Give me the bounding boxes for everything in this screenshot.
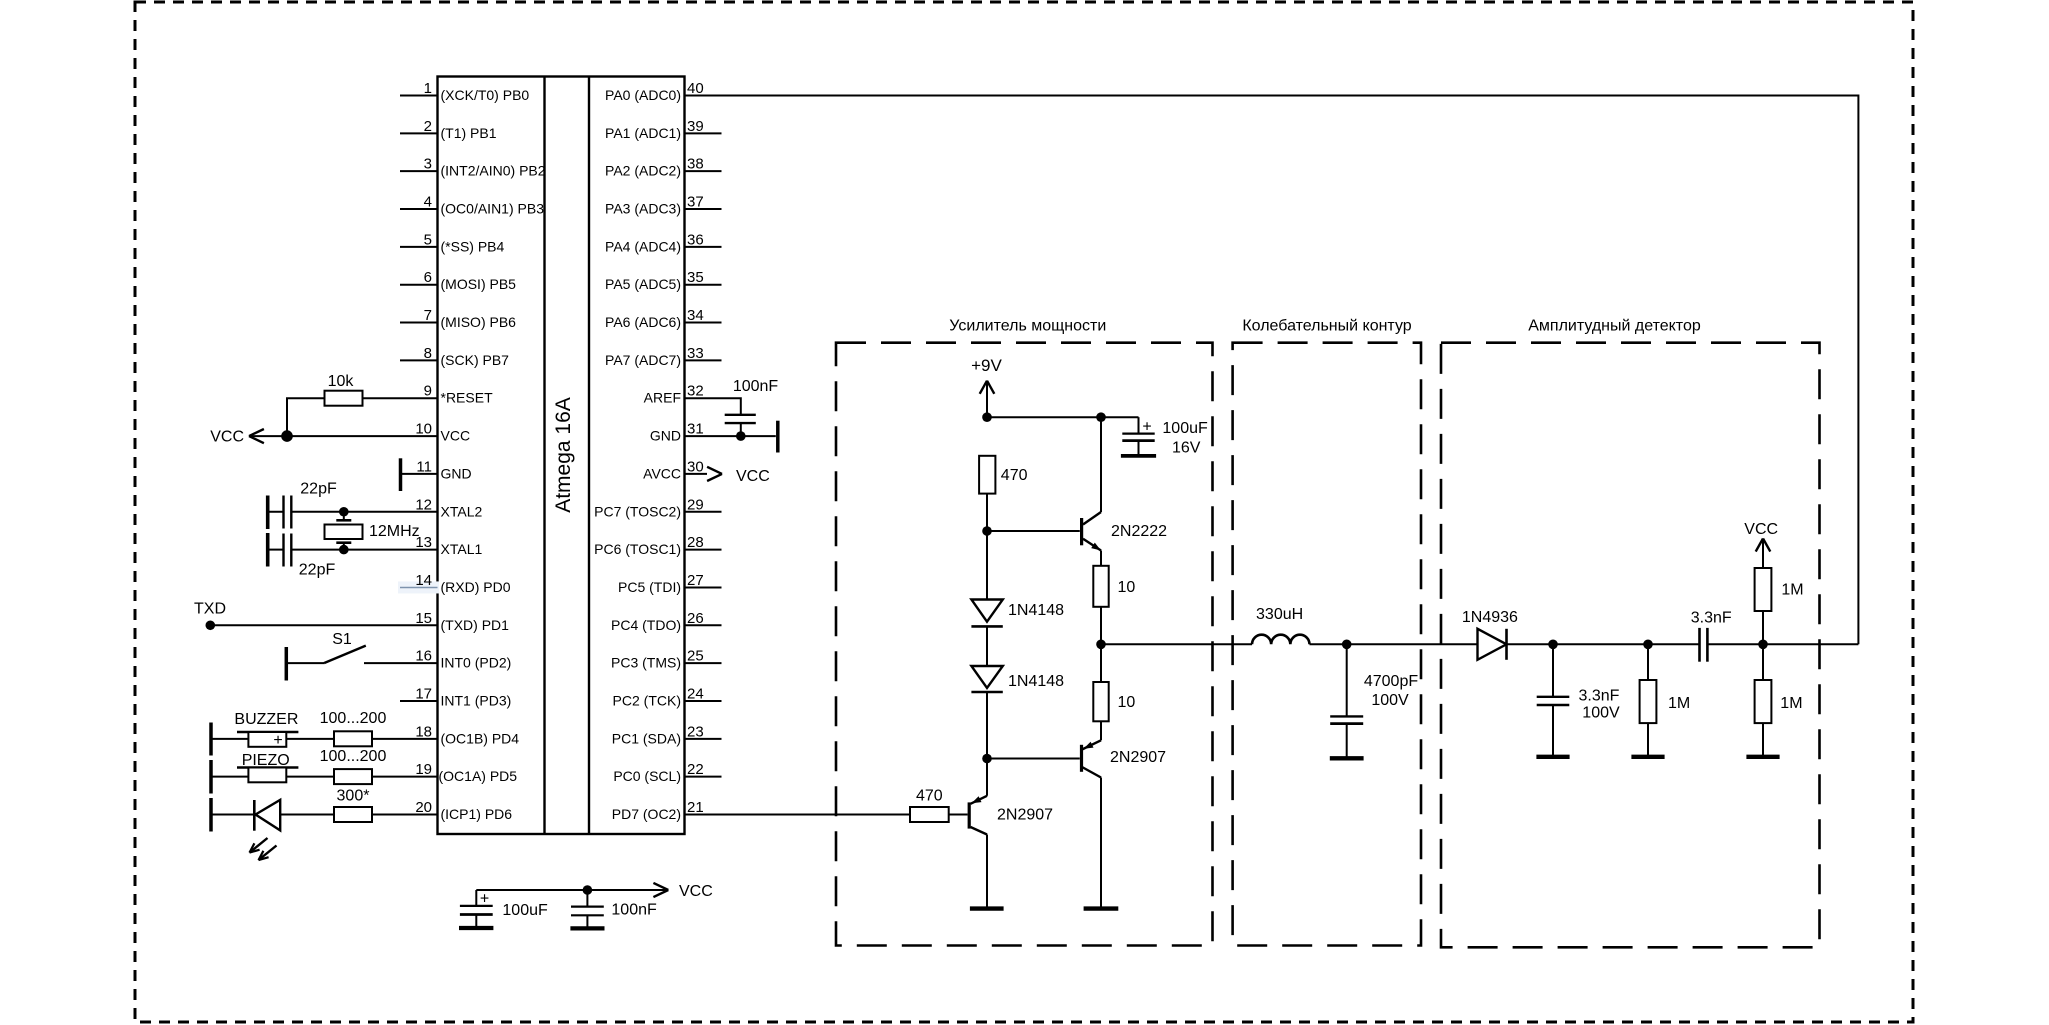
pin 12 XTAL2 xyxy=(415,496,482,519)
svg-text:22pF: 22pF xyxy=(299,562,336,579)
svg-text:14: 14 xyxy=(415,572,432,589)
svg-text:12: 12 xyxy=(415,496,432,513)
pin 39 PA1 (ADC1) xyxy=(605,118,721,141)
svg-text:16: 16 xyxy=(415,648,432,665)
svg-text:PC6 (TOSC1): PC6 (TOSC1) xyxy=(594,541,681,557)
pin 37 PA3 (ADC3) xyxy=(605,194,721,217)
svg-text:VCC: VCC xyxy=(679,883,713,900)
power symbol VCC (detector) xyxy=(1744,521,1778,557)
svg-text:10: 10 xyxy=(1118,694,1136,711)
wire LED to R4 xyxy=(280,813,334,815)
svg-text:100nF: 100nF xyxy=(733,378,779,395)
ground bar buzzer xyxy=(209,723,213,756)
svg-text:VCC: VCC xyxy=(210,429,244,446)
svg-text:(OC0/AIN1) PB3: (OC0/AIN1) PB3 xyxy=(441,201,545,217)
pin 25 PC3 (TMS) xyxy=(611,648,722,671)
wire PA0 pin40 to detector output xyxy=(685,96,1859,645)
pin 22 PC0 (SCL) xyxy=(613,761,721,784)
svg-text:26: 26 xyxy=(687,610,704,627)
svg-text:100V: 100V xyxy=(1371,692,1409,709)
ground bar C7 xyxy=(570,926,604,930)
wire +9V rail top xyxy=(987,416,1139,418)
svg-text:(ICP1) PD6: (ICP1) PD6 xyxy=(441,806,513,822)
pin 11 GND xyxy=(416,458,471,481)
resistor R11 1M (pull-down) xyxy=(1755,644,1803,757)
svg-text:(XCK/T0) PB0: (XCK/T0) PB0 xyxy=(441,87,530,103)
svg-text:+: + xyxy=(480,891,489,908)
wire piezo to R3 xyxy=(286,776,334,778)
svg-text:BUZZER: BUZZER xyxy=(234,711,298,728)
pin 4 (OC0/AIN1) PB3 xyxy=(400,194,544,217)
pin 10 VCC xyxy=(415,421,470,444)
svg-text:XTAL1: XTAL1 xyxy=(441,541,483,557)
svg-text:9: 9 xyxy=(424,383,432,400)
svg-text:20: 20 xyxy=(415,799,432,816)
svg-text:33: 33 xyxy=(687,345,704,362)
crystal Y1 12MHz xyxy=(325,512,420,550)
svg-text:100V: 100V xyxy=(1582,704,1620,721)
svg-text:1M: 1M xyxy=(1668,695,1690,712)
svg-text:S1: S1 xyxy=(332,631,352,648)
svg-text:3.3nF: 3.3nF xyxy=(1579,687,1620,704)
capacitor C6 100uF (electrolytic) xyxy=(460,890,548,928)
svg-text:470: 470 xyxy=(1001,467,1028,484)
section box: power amplifier xyxy=(836,343,1213,946)
junction node Q1 base xyxy=(982,526,992,536)
svg-text:3: 3 xyxy=(424,156,432,173)
pin 17 INT1 (PD3) xyxy=(400,685,511,708)
junction node B xyxy=(1643,640,1653,650)
wire pin9 to resistor R1 xyxy=(363,397,438,399)
ground bar S1 xyxy=(285,647,289,681)
ground bar piezo xyxy=(209,760,213,794)
wire R7 to output node xyxy=(1100,607,1102,645)
resistor R1 10k xyxy=(325,373,363,406)
junction node A xyxy=(1548,640,1558,650)
svg-text:PA7 (ADC7): PA7 (ADC7) xyxy=(605,352,681,368)
svg-text:PD7 (OC2): PD7 (OC2) xyxy=(612,806,681,822)
pin 6 (MOSI) PB5 xyxy=(400,269,516,292)
svg-text:3.3nF: 3.3nF xyxy=(1691,610,1732,627)
svg-text:2N2907: 2N2907 xyxy=(997,807,1053,824)
svg-text:Усилитель мощности: Усилитель мощности xyxy=(949,318,1106,335)
ground bar C6 xyxy=(459,926,493,930)
wire pin31 GND xyxy=(685,435,776,437)
svg-text:8: 8 xyxy=(424,345,432,362)
svg-text:Atmega 16A: Atmega 16A xyxy=(552,397,575,513)
wire L1 to LC node xyxy=(1310,643,1347,645)
power symbol +9V xyxy=(971,356,1002,417)
section title: Колебательный контур xyxy=(1242,318,1411,335)
svg-text:PA1 (ADC1): PA1 (ADC1) xyxy=(605,125,681,141)
svg-text:18: 18 xyxy=(415,723,432,740)
pin 26 PC4 (TDO) xyxy=(611,610,722,633)
wire to Q1 base xyxy=(987,530,1080,532)
svg-text:(OC1B) PD4: (OC1B) PD4 xyxy=(441,730,520,746)
pin 5 (*SS) PB4 xyxy=(400,231,505,254)
svg-text:15: 15 xyxy=(415,610,432,627)
ground bar Q3 xyxy=(970,906,1004,910)
svg-text:24: 24 xyxy=(687,685,704,702)
svg-text:39: 39 xyxy=(687,118,704,135)
ground bar C8 xyxy=(1121,454,1156,458)
svg-text:+: + xyxy=(273,732,282,749)
svg-text:(MISO) PB6: (MISO) PB6 xyxy=(441,314,517,330)
resistor R2 100...200 xyxy=(320,710,387,746)
wire TXD to pin15 xyxy=(210,624,437,626)
wire node B to C11 xyxy=(1648,643,1700,645)
pin 40 PA0 (ADC0) xyxy=(605,80,704,103)
resistor R7 10 xyxy=(1093,566,1135,607)
svg-text:(SCK) PB7: (SCK) PB7 xyxy=(441,352,510,368)
pin 30 AVCC xyxy=(643,458,704,481)
svg-text:1M: 1M xyxy=(1780,695,1802,712)
svg-text:PC0 (SCL): PC0 (SCL) xyxy=(613,768,681,784)
ground bar LED xyxy=(209,798,213,832)
pin 31 GND xyxy=(650,421,704,444)
svg-text:12MHz: 12MHz xyxy=(369,523,420,540)
svg-text:(T1) PB1: (T1) PB1 xyxy=(441,125,497,141)
svg-text:PA2 (ADC2): PA2 (ADC2) xyxy=(605,163,681,179)
wire R3 to pin19 xyxy=(372,776,438,778)
svg-text:30: 30 xyxy=(687,458,704,475)
junction node XTAL1 xyxy=(339,545,349,555)
wire S1 left contact xyxy=(286,662,324,664)
ground bar pin11 xyxy=(399,458,403,491)
pin 33 PA7 (ADC7) xyxy=(605,345,721,368)
wire pin12 XTAL2 xyxy=(291,511,437,513)
svg-text:PA3 (ADC3): PA3 (ADC3) xyxy=(605,201,681,217)
svg-text:2: 2 xyxy=(424,118,432,135)
svg-text:*RESET: *RESET xyxy=(441,390,494,406)
svg-text:1N4936: 1N4936 xyxy=(1462,609,1518,626)
ground bar R11 xyxy=(1746,755,1779,759)
inductor L1 330uH xyxy=(1252,606,1310,644)
pin 15 (TXD) PD1 xyxy=(415,610,509,633)
svg-text:10: 10 xyxy=(415,421,432,438)
junction node rail-R6 xyxy=(982,412,992,422)
pin 9 *RESET xyxy=(424,383,493,406)
ground bar C10 xyxy=(1536,755,1569,759)
pin 27 PC5 (TDI) xyxy=(618,572,722,595)
pin 35 PA5 (ADC5) xyxy=(605,269,721,292)
svg-text:27: 27 xyxy=(687,572,704,589)
svg-text:+9V: +9V xyxy=(971,356,1002,375)
svg-text:1N4148: 1N4148 xyxy=(1008,602,1064,619)
IC U1 Atmega 16A xyxy=(438,77,685,835)
pin 29 PC7 (TOSC2) xyxy=(594,496,721,519)
wire pin13 XTAL1 xyxy=(291,549,437,551)
svg-text:1: 1 xyxy=(424,80,432,97)
svg-text:10: 10 xyxy=(1118,579,1136,596)
wire pin10 to VCC node xyxy=(287,435,438,437)
svg-text:(*SS) PB4: (*SS) PB4 xyxy=(441,238,505,254)
svg-text:PIEZO: PIEZO xyxy=(242,752,290,769)
svg-text:1M: 1M xyxy=(1781,582,1803,599)
svg-text:PA0 (ADC0): PA0 (ADC0) xyxy=(605,87,681,103)
resistor R9 1M xyxy=(1640,644,1691,757)
svg-text:34: 34 xyxy=(687,307,704,324)
pin 36 PA4 (ADC4) xyxy=(605,231,721,254)
wire C11 to node C xyxy=(1707,643,1763,645)
svg-text:37: 37 xyxy=(687,194,704,211)
pin 28 PC6 (TOSC1) xyxy=(594,534,721,557)
resistor R3 100...200 xyxy=(320,748,387,784)
svg-text:1N4148: 1N4148 xyxy=(1008,673,1064,690)
power symbol VCC (bottom) xyxy=(653,883,712,900)
svg-text:PA4 (ADC4): PA4 (ADC4) xyxy=(605,238,681,254)
resistor R5 470 (base drive) xyxy=(910,787,949,822)
wire buzzer to R2 xyxy=(286,738,334,740)
junction node AREF/GND xyxy=(736,431,746,441)
svg-text:40: 40 xyxy=(687,80,704,97)
svg-text:PC7 (TOSC2): PC7 (TOSC2) xyxy=(594,503,681,519)
svg-text:2N2222: 2N2222 xyxy=(1111,523,1167,540)
section title: Усилитель мощности xyxy=(949,318,1106,335)
power symbol VCC (AVCC pin30) xyxy=(685,467,770,485)
svg-text:GND: GND xyxy=(650,428,681,444)
svg-text:INT0 (PD2): INT0 (PD2) xyxy=(441,655,512,671)
wire R6 to diode D1 xyxy=(986,494,988,600)
junction node LC xyxy=(1342,640,1352,650)
svg-text:(RXD) PD0: (RXD) PD0 xyxy=(441,579,511,595)
diode D1 1N4148 xyxy=(971,600,1064,627)
svg-text:6: 6 xyxy=(424,269,432,286)
resistor R10 1M (pull-up) xyxy=(1755,557,1804,645)
svg-text:GND: GND xyxy=(441,465,472,481)
pin 24 PC2 (TCK) xyxy=(613,685,722,708)
pin 20 (ICP1) PD6 xyxy=(415,799,512,822)
svg-text:VCC: VCC xyxy=(441,428,471,444)
svg-text:5: 5 xyxy=(424,231,432,248)
svg-text:4: 4 xyxy=(424,194,432,211)
svg-text:(INT2/AIN0) PB2: (INT2/AIN0) PB2 xyxy=(441,163,546,179)
wire to Q2 base xyxy=(987,758,1080,760)
pin 23 PC1 (SDA) xyxy=(612,723,722,746)
svg-text:VCC: VCC xyxy=(1744,521,1778,538)
svg-text:(TXD) PD1: (TXD) PD1 xyxy=(441,617,510,633)
ground bar C2 xyxy=(266,496,270,530)
ground bar C9 xyxy=(1330,756,1364,760)
svg-text:VCC: VCC xyxy=(736,468,770,485)
svg-text:AVCC: AVCC xyxy=(643,465,681,481)
svg-text:22pF: 22pF xyxy=(300,480,337,497)
wire pin21 PD7 to R5 xyxy=(685,813,911,815)
svg-text:100uF: 100uF xyxy=(1162,420,1208,437)
wire R5 to Q3 base xyxy=(949,813,968,815)
svg-text:PC2 (TCK): PC2 (TCK) xyxy=(613,692,681,708)
resistor R4 300* xyxy=(334,787,372,822)
capacitor C8 100uF 16V xyxy=(1122,417,1208,456)
transistor Q2 2N2907 xyxy=(1082,721,1167,908)
svg-text:AREF: AREF xyxy=(644,390,681,406)
section title: Амплитудный детектор xyxy=(1528,318,1701,335)
capacitor C3 22pF (XTAL1) xyxy=(269,534,335,579)
pin 18 (OC1B) PD4 xyxy=(415,723,519,746)
power symbol VCC (left) xyxy=(210,429,287,446)
wire node A to node B xyxy=(1553,643,1648,645)
piezo BZ2 xyxy=(237,752,298,782)
wire D1 to D2 xyxy=(986,626,988,666)
capacitor C11 3.3nF (series) xyxy=(1691,610,1732,662)
junction node C xyxy=(1758,640,1768,650)
wire S1 to pin16 xyxy=(364,662,438,664)
wire ground to LED xyxy=(211,813,255,815)
svg-text:10k: 10k xyxy=(328,373,355,390)
svg-text:100uF: 100uF xyxy=(502,902,548,919)
diode D2 1N4148 xyxy=(971,666,1064,692)
svg-text:PC5 (TDI): PC5 (TDI) xyxy=(618,579,681,595)
svg-text:100...200: 100...200 xyxy=(320,710,387,727)
pin 38 PA2 (ADC2) xyxy=(605,156,721,179)
wire LC node to D3 xyxy=(1347,643,1478,645)
svg-text:XTAL2: XTAL2 xyxy=(441,503,483,519)
junction node XTAL2 xyxy=(339,507,349,517)
svg-text:36: 36 xyxy=(687,231,704,248)
svg-text:+: + xyxy=(1142,418,1151,435)
pin 34 PA6 (ADC6) xyxy=(605,307,721,330)
svg-text:100nF: 100nF xyxy=(611,902,657,919)
section box: amplitude detector xyxy=(1441,343,1820,948)
svg-text:29: 29 xyxy=(687,496,704,513)
wire D3 to node A xyxy=(1507,643,1553,645)
svg-text:330uH: 330uH xyxy=(1256,606,1303,623)
pin 1 (XCK/T0) PB0 xyxy=(400,80,529,103)
wire R4 to pin20 xyxy=(372,813,438,815)
svg-text:PA6 (ADC6): PA6 (ADC6) xyxy=(605,314,681,330)
section box: oscillating circuit xyxy=(1233,343,1421,946)
resistor R6 470 xyxy=(979,456,1027,494)
svg-text:16V: 16V xyxy=(1172,440,1201,457)
svg-text:28: 28 xyxy=(687,534,704,551)
svg-text:100...200: 100...200 xyxy=(320,748,387,765)
capacitor C9 4700pF 100V xyxy=(1330,644,1418,758)
svg-text:31: 31 xyxy=(687,421,704,438)
svg-text:7: 7 xyxy=(424,307,432,324)
svg-text:300*: 300* xyxy=(337,787,370,804)
wire R1 to VCC node xyxy=(287,398,325,436)
svg-text:PA5 (ADC5): PA5 (ADC5) xyxy=(605,276,681,292)
svg-text:INT1 (PD3): INT1 (PD3) xyxy=(441,692,512,708)
svg-text:Амплитудный детектор: Амплитудный детектор xyxy=(1528,318,1701,335)
pin 3 (INT2/AIN0) PB2 xyxy=(400,156,546,179)
node TXD terminal xyxy=(194,600,226,630)
capacitor C10 3.3nF 100V xyxy=(1537,644,1620,757)
diode D3 1N4936 xyxy=(1462,609,1518,660)
pin 16 INT0 (PD2) xyxy=(415,648,511,671)
svg-text:17: 17 xyxy=(415,685,432,702)
svg-text:PC1 (SDA): PC1 (SDA) xyxy=(612,730,681,746)
pin 8 (SCK) PB7 xyxy=(400,345,509,368)
junction node VCC pin10 xyxy=(281,430,293,442)
svg-text:38: 38 xyxy=(687,156,704,173)
pin 19 (OC1A) PD5 xyxy=(415,761,517,784)
svg-text:Колебательный контур: Колебательный контур xyxy=(1242,318,1411,335)
ground bar R9 xyxy=(1631,755,1664,759)
junction node bases xyxy=(982,754,992,764)
buzzer BZ1 xyxy=(234,711,298,749)
svg-text:(MOSI) PB5: (MOSI) PB5 xyxy=(441,276,517,292)
svg-text:PC3 (TMS): PC3 (TMS) xyxy=(611,655,681,671)
svg-text:22: 22 xyxy=(687,761,704,778)
junction node output xyxy=(1096,640,1106,650)
svg-text:35: 35 xyxy=(687,269,704,286)
wire D2 to bases node xyxy=(986,692,988,759)
svg-text:23: 23 xyxy=(687,723,704,740)
svg-text:PC4 (TDO): PC4 (TDO) xyxy=(611,617,681,633)
wire R2 to pin18 xyxy=(372,738,438,740)
svg-text:(OC1A) PD5: (OC1A) PD5 xyxy=(439,768,518,784)
capacitor C5 100nF (AREF) xyxy=(725,378,779,436)
svg-text:2N2907: 2N2907 xyxy=(1110,749,1166,766)
pin 2 (T1) PB1 xyxy=(400,118,497,141)
transistor Q3 2N2907 (driver) xyxy=(969,759,1053,909)
pin 14 (RXD) PD0 xyxy=(398,572,511,595)
wire ground to piezo xyxy=(211,776,248,778)
ground bar Q2 xyxy=(1084,906,1119,910)
svg-text:21: 21 xyxy=(687,799,704,816)
resistor R8 10 xyxy=(1093,682,1135,721)
pin 32 AREF xyxy=(644,383,704,406)
svg-text:25: 25 xyxy=(687,648,704,665)
switch S1 xyxy=(324,631,366,663)
svg-text:4700pF: 4700pF xyxy=(1364,673,1418,690)
ground bar C3 xyxy=(266,533,270,567)
transistor Q1 2N2222 xyxy=(1082,417,1168,566)
wire output to inductor L1 xyxy=(1101,643,1252,645)
svg-text:19: 19 xyxy=(415,761,432,778)
svg-text:TXD: TXD xyxy=(194,600,226,617)
pin 21 PD7 (OC2) xyxy=(612,799,704,822)
svg-text:470: 470 xyxy=(916,787,943,804)
capacitor C7 100nF xyxy=(571,890,657,928)
junction node rail-Q1 xyxy=(1096,412,1106,422)
ground bar pin31 xyxy=(776,421,780,453)
junction node bottom VCC xyxy=(583,885,593,895)
wire pin11 GND xyxy=(402,473,438,475)
wire node C to PA0 riser xyxy=(1763,643,1858,645)
wire ground to buzzer xyxy=(211,738,248,740)
svg-text:32: 32 xyxy=(687,383,704,400)
LED D4 xyxy=(250,800,281,860)
pin 7 (MISO) PB6 xyxy=(400,307,516,330)
capacitor C2 22pF (XTAL2) xyxy=(269,480,337,528)
pin 13 XTAL1 xyxy=(415,534,482,557)
wire VCC rail bottom xyxy=(476,889,654,891)
wire output to R8 xyxy=(1100,644,1102,682)
wire pin32 AREF xyxy=(685,398,741,415)
svg-text:11: 11 xyxy=(416,458,432,475)
